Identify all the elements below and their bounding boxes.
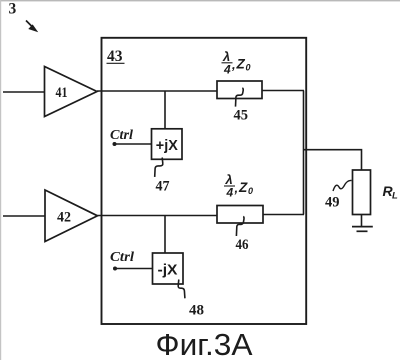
load resistor RL <box>353 170 371 215</box>
svg-text:47: 47 <box>156 179 170 195</box>
output bus vertical wire <box>303 91 305 215</box>
wire branch down to -jX box <box>164 216 166 254</box>
scan border top edge <box>0 0 400 1</box>
svg-text:Ctrl: Ctrl <box>110 249 134 264</box>
Ctrl wire to -jX <box>115 268 153 270</box>
value label lambda/4 Z0 for line 45 <box>222 49 251 77</box>
arrow from numeral 3 <box>26 21 37 32</box>
svg-text:45: 45 <box>234 108 249 124</box>
Ctrl terminal dot <box>113 267 117 271</box>
reactance box +jX <box>152 129 183 160</box>
wire from line 45 to output bus <box>262 90 304 92</box>
svg-text:42: 42 <box>57 210 71 226</box>
svg-text:43: 43 <box>107 48 123 65</box>
quarter-wave line 45 <box>217 81 262 99</box>
wire input to amplifier 41 <box>3 91 45 93</box>
svg-text:Z: Z <box>236 57 246 72</box>
svg-text:-jX: -jX <box>158 262 178 279</box>
scan border left edge <box>0 0 1 360</box>
leader squiggle to label 46 <box>236 217 244 237</box>
leader squiggle to label 49 <box>333 180 352 191</box>
svg-text:,: , <box>231 57 236 72</box>
leader squiggle to label 45 <box>236 88 244 107</box>
leader squiggle to label 47 <box>155 158 163 177</box>
wire from bus to load <box>304 150 362 170</box>
wire from line 46 to output bus <box>263 214 304 216</box>
Ctrl wire to +jX <box>115 143 152 145</box>
reactance box -jX <box>153 253 184 284</box>
ground <box>352 227 373 232</box>
svg-text:,: , <box>234 181 239 196</box>
svg-text:4: 4 <box>223 63 231 77</box>
amplifier 42 <box>45 190 98 242</box>
wire input to amplifier 42 <box>3 215 45 217</box>
svg-text:0: 0 <box>246 63 251 73</box>
Ctrl terminal dot <box>113 142 117 146</box>
svg-text:L: L <box>392 191 398 202</box>
label 43 underlined <box>107 48 125 65</box>
quarter-wave line 46 <box>217 206 263 224</box>
amplifier 41 <box>45 67 98 117</box>
value label lambda/4 Z0 for line 46 <box>224 172 253 200</box>
svg-text:46: 46 <box>236 237 249 253</box>
svg-text:4: 4 <box>226 186 234 200</box>
wire from amplifier 41 output to line 45 <box>97 90 217 92</box>
wire branch down to +jX box <box>164 91 166 129</box>
label RL <box>383 183 399 202</box>
svg-text:48: 48 <box>189 303 204 319</box>
wire resistor to ground <box>361 215 363 227</box>
svg-text:3: 3 <box>9 1 17 18</box>
svg-text:Z: Z <box>238 180 248 195</box>
combiner block box 43 <box>102 38 307 324</box>
svg-text:+jX: +jX <box>156 137 178 154</box>
svg-text:41: 41 <box>56 85 68 101</box>
leader squiggle to label 48 <box>178 280 185 299</box>
svg-text:0: 0 <box>248 186 253 196</box>
wire from amplifier 42 output to line 46 <box>98 215 218 217</box>
svg-text:49: 49 <box>325 195 340 211</box>
svg-text:Ctrl: Ctrl <box>110 127 133 142</box>
svg-text:Фиг.3А: Фиг.3А <box>156 327 253 360</box>
